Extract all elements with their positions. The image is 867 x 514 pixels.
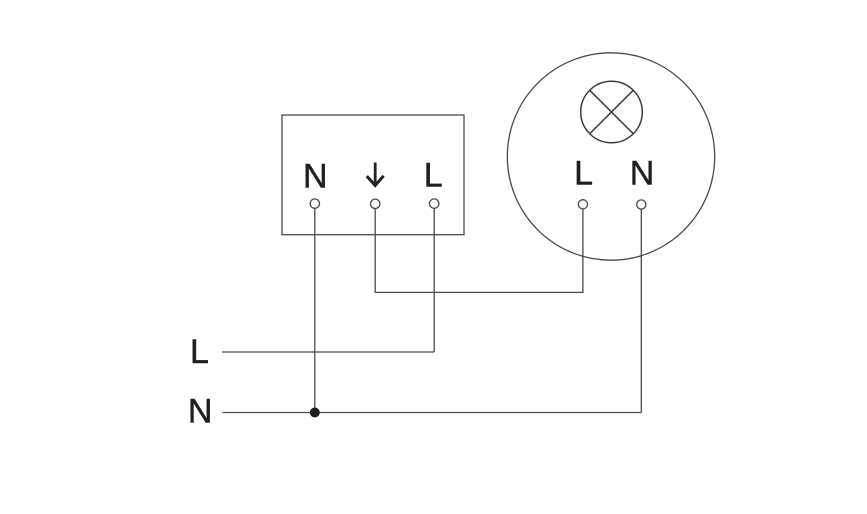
terminal N of U1 <box>310 199 319 208</box>
terminal N of E1 <box>637 200 646 209</box>
luminaire outline E1 <box>507 53 714 260</box>
terminal L of U1 <box>430 199 439 208</box>
terminal L of E1 <box>578 200 587 209</box>
svg-text:L: L <box>574 154 593 192</box>
junction node on N feed <box>310 408 320 418</box>
wire: U1 load terminal to E1 L terminal <box>375 209 583 293</box>
svg-text:N: N <box>303 158 328 196</box>
sensor terminal block U1 <box>282 115 464 235</box>
lamp symbol <box>581 81 643 143</box>
wire: E1 N terminal down to N feed <box>640 209 642 412</box>
svg-text:L: L <box>190 333 209 371</box>
wire: U1 L terminal down to L feed <box>433 208 435 352</box>
svg-text:N: N <box>630 155 655 193</box>
svg-text:N: N <box>188 393 213 431</box>
svg-text:L: L <box>424 157 443 195</box>
arrow symbol on U1 middle terminal <box>367 163 384 186</box>
wire: U1 N terminal down to N feed <box>314 208 316 412</box>
wire: N feed horizontal <box>223 412 642 414</box>
wire: L feed horizontal <box>222 351 434 353</box>
terminal arrow (load) of U1 <box>371 199 380 208</box>
